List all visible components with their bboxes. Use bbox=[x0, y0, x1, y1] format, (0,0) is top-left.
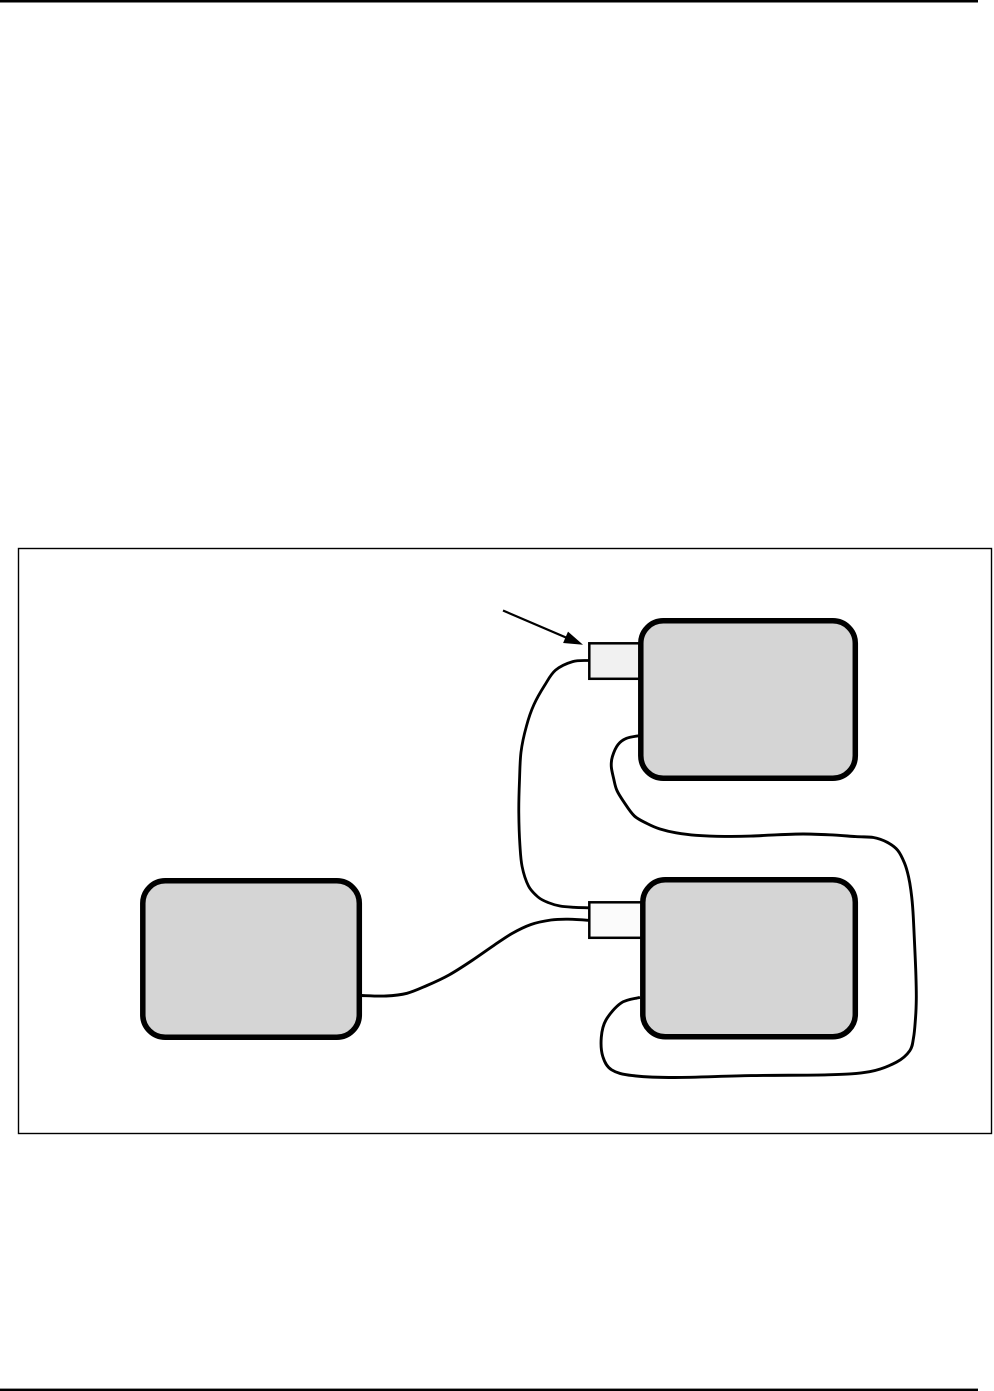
arrow pointer head bbox=[563, 632, 583, 645]
top device box bbox=[641, 621, 856, 779]
cable from top connector to middle connector bbox=[519, 661, 589, 908]
header rule bbox=[0, 0, 978, 3]
cable from left box to middle connector bbox=[361, 919, 589, 996]
middle connector plug bbox=[589, 902, 644, 938]
long cable from top box around right side to middle box bbox=[601, 736, 916, 1078]
figure frame bbox=[19, 549, 992, 1134]
arrow pointer line bbox=[503, 611, 568, 639]
left device box bbox=[143, 881, 359, 1038]
middle device box bbox=[643, 880, 856, 1037]
footer rule bbox=[0, 1389, 978, 1391]
top connector plug bbox=[589, 643, 644, 679]
